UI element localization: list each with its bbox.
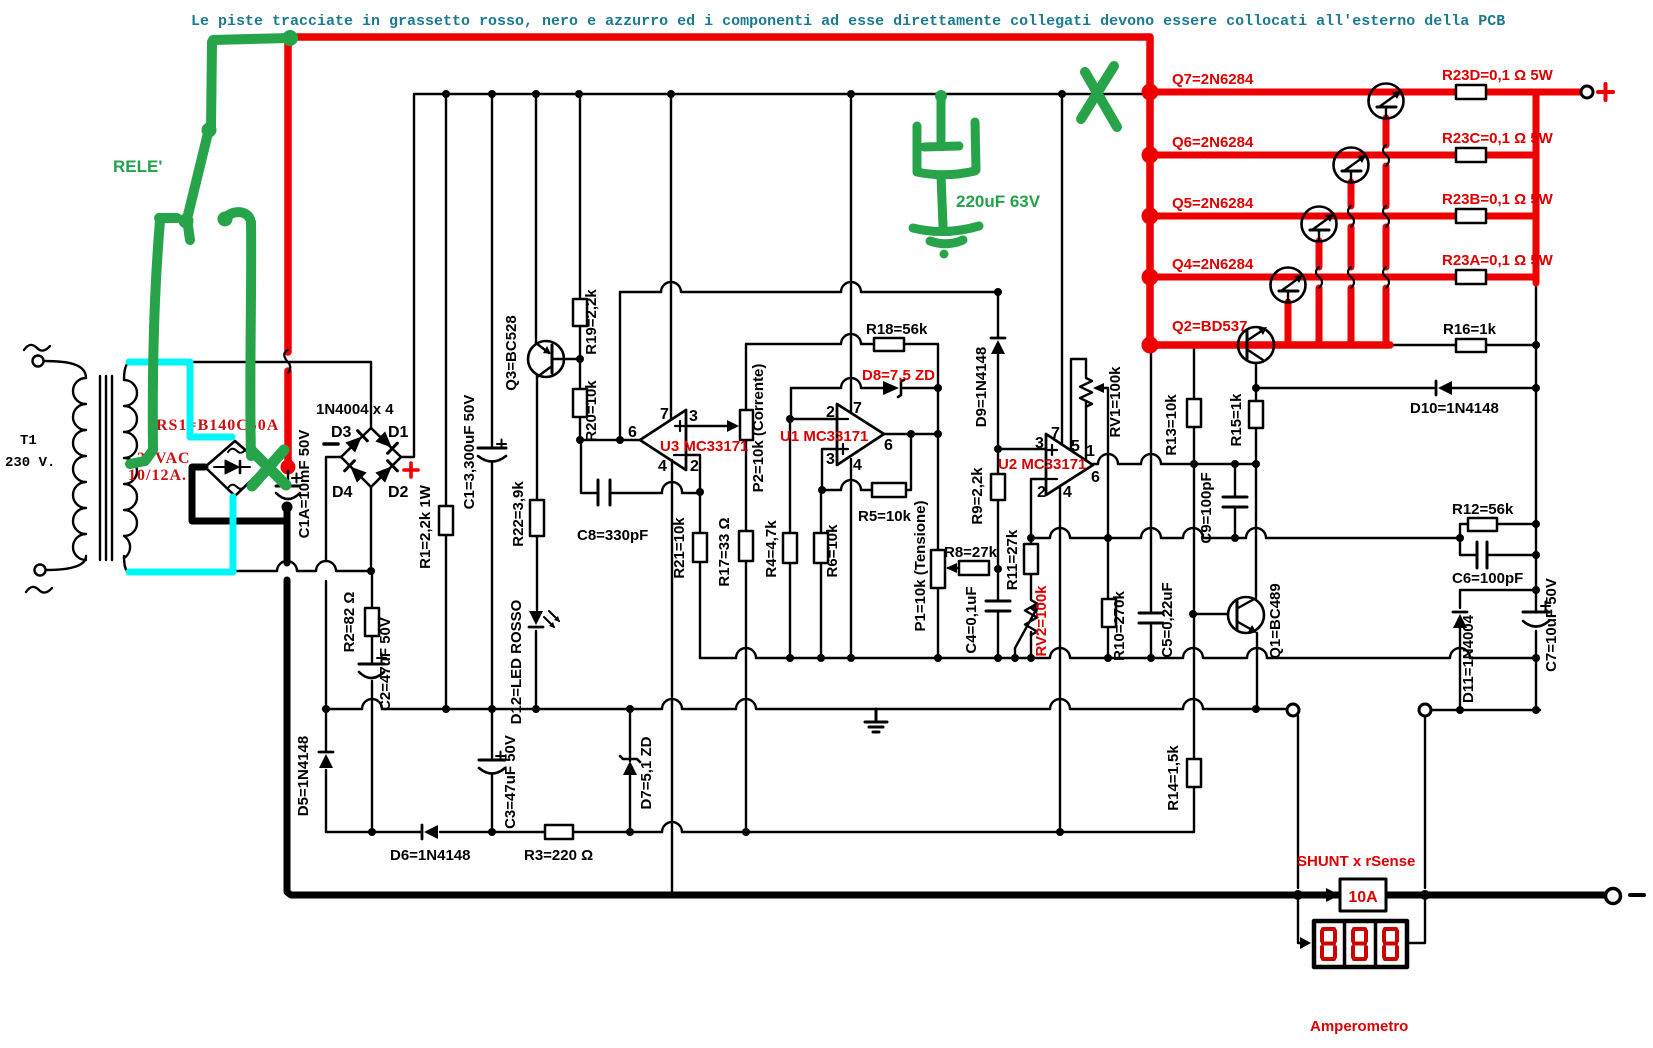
thick wire negative bus down and bottom: [287, 508, 1340, 895]
bridge RS1 ac squiggle bottom: [228, 485, 245, 489]
resistor R14: [1187, 759, 1201, 787]
svg-text:SHUNT x rSense: SHUNT x rSense: [1297, 853, 1415, 870]
svg-text:R12=56k: R12=56k: [1452, 501, 1514, 518]
bridge 1N4004 diamond: [341, 428, 401, 487]
svg-text:R23D=0,1 Ω 5W: R23D=0,1 Ω 5W: [1442, 67, 1554, 84]
transistor Q6: [1334, 148, 1369, 183]
svg-text:R1=2,2k 1W: R1=2,2k 1W: [417, 484, 434, 569]
wire R4 column x790: [789, 419, 791, 658]
svg-text:R2=82 Ω: R2=82 Ω: [341, 592, 358, 653]
svg-text:C6=100pF: C6=100pF: [1452, 570, 1523, 587]
wire D9 R9 C4 column x998: [997, 292, 999, 658]
svg-text:RELE': RELE': [113, 157, 162, 176]
green relay blobs: [179, 30, 299, 229]
wire U2 output rail y464: [1093, 463, 1256, 465]
wire RV1 bottom lead: [1085, 401, 1087, 460]
svg-text:R19=2,2k: R19=2,2k: [583, 289, 600, 355]
green relay trace top: [130, 38, 290, 464]
svg-text:220uF 63V: 220uF 63V: [956, 192, 1041, 211]
wire R21 column x700: [699, 492, 701, 658]
wire Q1 base line y614: [1193, 613, 1228, 615]
svg-text:R14=1,5k: R14=1,5k: [1165, 745, 1182, 811]
wire U2 pin2 R11 RV2 column x1031: [1031, 479, 1046, 658]
svg-text:R5=10k: R5=10k: [858, 508, 912, 525]
red collector drop Q6: [1348, 182, 1355, 345]
hop mark on red trace: [284, 350, 290, 373]
svg-text:2: 2: [1037, 484, 1046, 501]
ammeter display frame: [1314, 921, 1407, 967]
svg-text:R11=27k: R11=27k: [1004, 529, 1021, 590]
resistor R23C: [1456, 148, 1486, 162]
potentiometer RV1: [1080, 359, 1092, 407]
wire U1 pin4 column: [850, 459, 852, 658]
ammeter wire left with arrow: [1298, 900, 1302, 943]
wire R19 R20 column x580: [579, 94, 581, 440]
wire U2 pin5 RV1 bracket: [1071, 359, 1086, 450]
wire rail y292: [620, 291, 998, 293]
op-amp U1: [837, 404, 884, 465]
svg-text:C1A=10mF 50V: C1A=10mF 50V: [296, 430, 313, 539]
wire R1 column x446: [445, 94, 447, 709]
svg-text:Q4=2N6284: Q4=2N6284: [1172, 256, 1254, 273]
wire U2 pin7 column x1062: [1061, 94, 1063, 444]
svg-text:R23B=0,1 Ω 5W: R23B=0,1 Ω 5W: [1442, 191, 1554, 208]
potentiometer P1: [931, 550, 945, 588]
red collector drop Q7: [1383, 118, 1390, 345]
svg-text:D11=1N4004: D11=1N4004: [1460, 614, 1477, 703]
svg-text:R8=27k: R8=27k: [944, 544, 998, 561]
wire terminal drop right: [1424, 716, 1426, 888]
svg-text:D3: D3: [331, 424, 352, 441]
svg-text:D1: D1: [388, 424, 409, 441]
svg-text:1N4004 x 4: 1N4004 x 4: [316, 401, 394, 418]
wire P2 R17 column x746: [745, 344, 747, 832]
wire D11 top line y590: [1460, 590, 1536, 608]
svg-text:C4=0,1uF: C4=0,1uF: [963, 586, 980, 653]
svg-text:D7=5,1 ZD: D7=5,1 ZD: [638, 736, 655, 809]
bridge RS1 ac squiggle top: [228, 449, 245, 453]
wire rail y710 right segment: [1431, 709, 1540, 711]
wire D10 line y388: [1256, 387, 1536, 389]
resistor R10: [1102, 599, 1116, 627]
svg-text:R3=220 Ω: R3=220 Ω: [524, 847, 593, 864]
red trace top horizontal: [290, 37, 1150, 40]
wire U2 pin4 column x1060: [1059, 486, 1061, 832]
resistor R20: [573, 389, 587, 417]
transformer secondary lead bottom: [124, 556, 128, 572]
capacitor C1A: [287, 471, 289, 485]
resistor R17: [739, 531, 753, 561]
transformer T1 secondary winding: [124, 380, 137, 558]
diode D5: [319, 754, 333, 768]
svg-text:7: 7: [1051, 425, 1060, 442]
transistor Q3: [528, 341, 564, 377]
svg-text:10A: 10A: [1348, 889, 1378, 906]
resistor R9: [991, 474, 1005, 500]
wire U3 output line y440: [581, 439, 640, 441]
resistor R23A: [1456, 270, 1486, 284]
svg-text:D9=1N4148: D9=1N4148: [973, 347, 990, 427]
wire D8 line y388: [791, 387, 938, 389]
svg-text:R23C=0,1 Ω 5W: R23C=0,1 Ω 5W: [1442, 130, 1554, 147]
resistor R2: [365, 608, 379, 636]
P1 wiper arrow from R8: [948, 567, 959, 569]
diode D4: [345, 461, 367, 483]
red trace to bridge plus: [284, 40, 292, 462]
svg-text:R6=10k: R6=10k: [824, 524, 841, 578]
wire R18 line y346: [746, 343, 938, 345]
svg-text:R22=3,9k: R22=3,9k: [510, 481, 527, 547]
red row Q4: [1150, 274, 1533, 281]
wire bridge left vertex down: [326, 457, 341, 832]
capacitor C7: [1523, 611, 1549, 614]
svg-text:Q6=2N6284: Q6=2N6284: [1172, 134, 1254, 151]
red bus junction blobs: [1142, 84, 1159, 354]
capacitor C6: [1477, 542, 1487, 568]
red bus corner to Q2: [1150, 341, 1390, 345]
svg-text:T1: T1: [20, 433, 37, 449]
transistor Q7: [1369, 84, 1404, 119]
svg-text:Amperometro: Amperometro: [1310, 1018, 1408, 1035]
P2 wiper arrow: [727, 420, 739, 432]
svg-text:7: 7: [660, 406, 669, 423]
svg-text:R17=33 Ω: R17=33 Ω: [716, 517, 733, 586]
resistor R1: [439, 506, 453, 535]
svg-text:4: 4: [1063, 484, 1072, 501]
svg-text:R18=56k: R18=56k: [866, 321, 928, 338]
svg-text:P2=10k (Corrente): P2=10k (Corrente): [750, 364, 767, 493]
transformer T1 primary winding: [73, 378, 86, 560]
svg-text:Q2=BD537: Q2=BD537: [1172, 318, 1247, 335]
wire R12 line y524: [1460, 524, 1536, 555]
wire U1 pin2 line y419: [790, 388, 837, 419]
transformer primary terminal bottom: [26, 556, 86, 593]
resistor R4: [783, 533, 797, 563]
zener D8: [883, 381, 899, 395]
wire R6 column x821: [820, 490, 822, 658]
bridge RS1 diamond: [205, 441, 265, 496]
potentiometer P2: [740, 410, 753, 440]
resistor R15: [1249, 401, 1263, 428]
wire D11 lower segment: [1459, 628, 1461, 710]
red junction dot at bridge plus: [281, 460, 296, 475]
wire RV1 wiper column x1108: [1107, 388, 1109, 658]
ammeter digits 888: [1322, 929, 1397, 959]
svg-text:3: 3: [826, 451, 835, 468]
svg-text:RV2=100k: RV2=100k: [1033, 585, 1050, 657]
resistor R19: [573, 299, 587, 326]
svg-text:4: 4: [853, 457, 862, 474]
resistor R3: [545, 825, 573, 839]
resistor R5: [872, 483, 906, 497]
cyan wire RS1 bottom to secondary bottom: [129, 497, 233, 572]
resistor R8: [959, 561, 989, 575]
wire rail y709: [323, 708, 1287, 710]
cyan wire secondary top to RS1: [129, 362, 232, 437]
shunt 10A box: [1340, 879, 1386, 911]
red row Q7: [1150, 89, 1580, 96]
wire R16 line y345: [1390, 344, 1536, 346]
hop marks rail571: [277, 561, 336, 571]
wire R5 feedback line y490: [822, 434, 911, 490]
resistor R13: [1187, 399, 1201, 427]
diode D3: [345, 431, 367, 453]
svg-text:D2: D2: [388, 484, 409, 501]
svg-text:R15=1k: R15=1k: [1228, 393, 1245, 447]
diode D1: [375, 431, 397, 453]
svg-text:1: 1: [1086, 443, 1095, 460]
red collector drop Q4: [1285, 302, 1292, 345]
capacitor C8: [598, 480, 610, 505]
wire U1 pin7 column: [850, 94, 852, 413]
thick wire bridge minus to C1A minus: [192, 467, 287, 521]
bridge RS1 inner diode: [225, 460, 239, 474]
red row Q6: [1150, 152, 1533, 159]
wire right bus x1536 black part: [1535, 283, 1537, 710]
green X at bridge: [252, 450, 286, 486]
svg-text:R10=270k: R10=270k: [1111, 591, 1128, 661]
diode D10: [1438, 381, 1452, 395]
svg-text:U1 MC33171: U1 MC33171: [780, 428, 868, 445]
svg-text:5: 5: [1071, 438, 1080, 455]
red right bus x1536: [1533, 92, 1540, 283]
wire secondary bottom rail y571: [237, 570, 373, 572]
svg-text:R16=1k: R16=1k: [1443, 321, 1497, 338]
svg-text:Q5=2N6284: Q5=2N6284: [1172, 195, 1254, 212]
wire rail y538: [1031, 537, 1460, 539]
transistor Q1: [1228, 583, 1284, 658]
svg-text:7: 7: [853, 400, 862, 417]
wire U1 pin3 stub: [822, 449, 837, 490]
svg-text:R21=10k: R21=10k: [671, 517, 688, 579]
svg-text:D8=7,5 ZD: D8=7,5 ZD: [862, 367, 935, 384]
wire terminal drop left: [1297, 716, 1299, 888]
green X at top right: [1081, 66, 1117, 127]
op-amp U3: [640, 410, 686, 470]
svg-text:C9=100pF: C9=100pF: [1198, 472, 1215, 543]
wire C5 column x1151: [1150, 349, 1152, 658]
resistor R6: [814, 533, 828, 563]
svg-text:6: 6: [628, 424, 637, 441]
svg-text:4: 4: [658, 458, 667, 475]
svg-text:6: 6: [884, 437, 893, 454]
svg-text:D12=LED ROSSO: D12=LED ROSSO: [508, 599, 525, 724]
red row Q5: [1150, 213, 1533, 220]
resistor R18: [874, 338, 904, 351]
capacitor C4: [986, 601, 1010, 611]
transistor Q4: [1271, 268, 1306, 303]
op-amp U2: [1046, 434, 1093, 495]
svg-text:Q3=BC528: Q3=BC528: [503, 315, 520, 390]
svg-text:D10=1N4148: D10=1N4148: [1410, 400, 1499, 417]
transformer T1 core: [100, 376, 112, 560]
capacitor C3: [479, 759, 505, 762]
wire C8 feedback line y492: [581, 440, 700, 493]
wire bridge right vertex up to top bus: [401, 94, 414, 457]
svg-text:R13=10k: R13=10k: [1163, 394, 1180, 456]
svg-text:3: 3: [689, 408, 698, 425]
diode D9: [991, 340, 1005, 354]
diode D2: [375, 461, 397, 483]
label D5: [295, 736, 312, 816]
svg-text:2: 2: [826, 404, 835, 421]
svg-text:2: 2: [690, 458, 699, 475]
wire U3 pin4 column: [671, 460, 673, 892]
wire Q1 emitter: [1256, 633, 1258, 709]
diode D11: [1453, 614, 1467, 628]
svg-text:D5=1N4148: D5=1N4148: [295, 736, 312, 816]
wire bridge bottom vertex down: [371, 487, 372, 832]
shunt junction dots: [1293, 890, 1303, 900]
wire ground rail y658: [700, 657, 1536, 659]
resistor R22: [530, 500, 544, 536]
transistor Q2: [1238, 327, 1274, 363]
svg-text:D4: D4: [332, 484, 353, 501]
wire Q2 collector column x1256: [1255, 363, 1257, 597]
wire top supply bus y94: [414, 93, 1146, 95]
terminal circle left: [1287, 704, 1299, 716]
svg-text:C5=0,22uF: C5=0,22uF: [1159, 582, 1176, 657]
svg-text:6: 6: [1091, 469, 1100, 486]
capacitor C2: [359, 663, 384, 666]
black hop squiggles on red drops: [1316, 145, 1389, 288]
svg-text:RS1=B140C50A: RS1=B140C50A: [156, 417, 279, 434]
LED D12: [529, 611, 543, 625]
thick wire negative bus after shunt: [1386, 892, 1605, 899]
svg-text:RV1=100k: RV1=100k: [1107, 366, 1124, 438]
resistor R16: [1456, 339, 1486, 352]
transformer primary terminal top: [24, 345, 86, 378]
svg-text:C2=47uF 50V: C2=47uF 50V: [377, 617, 394, 711]
red plus mark at bridge: [404, 463, 418, 477]
wire R13 R14 column x1194: [1193, 348, 1195, 759]
potentiometer RV2: [1025, 600, 1037, 635]
svg-text:Le piste tracciate in grassett: Le piste tracciate in grassetto rosso, n…: [191, 13, 1505, 30]
svg-text:Q1=BC489: Q1=BC489: [1267, 583, 1284, 658]
capacitor C1: [478, 447, 506, 450]
capacitor C5: [1139, 613, 1163, 623]
svg-text:R20=10k: R20=10k: [583, 380, 600, 442]
svg-text:C1=3,300uF 50V: C1=3,300uF 50V: [461, 395, 478, 510]
wire Q3 LED column x536: [536, 94, 537, 709]
svg-text:D6=1N4148: D6=1N4148: [390, 847, 470, 864]
svg-text:230 V.: 230 V.: [5, 455, 55, 471]
transformer secondary lead top: [124, 362, 129, 380]
ground symbol: [865, 709, 887, 732]
resistor R12: [1468, 518, 1497, 531]
svg-text:C7=10uF 50V: C7=10uF 50V: [1543, 578, 1560, 672]
terminal circle right: [1419, 704, 1431, 716]
wire U3 pin3 to P2: [686, 425, 733, 427]
wire U1 output line y434: [884, 433, 938, 435]
ammeter wire right: [1407, 900, 1425, 943]
red collector drop Q5: [1316, 241, 1323, 345]
wire C1 column x492: [491, 94, 493, 832]
svg-text:U2 MC33171: U2 MC33171: [998, 456, 1086, 473]
svg-text:R23A=0,1 Ω 5W: R23A=0,1 Ω 5W: [1442, 252, 1554, 269]
wire secondary top to 1N4004 bridge: [128, 362, 371, 428]
svg-text:C8=330pF: C8=330pF: [577, 527, 648, 544]
svg-text:U3 MC33171: U3 MC33171: [660, 438, 748, 455]
resistor R21: [693, 533, 707, 562]
svg-text:C3=47uF 50V: C3=47uF 50V: [502, 735, 519, 829]
wire C6 line y555: [1460, 554, 1536, 556]
transistor Q5: [1302, 207, 1337, 242]
svg-text:R9=2,2k: R9=2,2k: [969, 467, 986, 525]
wire U3 pin7 column: [670, 94, 672, 419]
wire x620 column: [619, 292, 621, 440]
wire U2 input line: [998, 448, 1046, 450]
resistor R11: [1024, 544, 1038, 574]
diode D6: [424, 825, 438, 839]
red power bus vertical x1150: [1146, 37, 1154, 341]
resistor R23D: [1456, 85, 1486, 99]
svg-text:Q7=2N6284: Q7=2N6284: [1172, 71, 1254, 88]
capacitor C9: [1223, 497, 1247, 507]
svg-text:R4=4,7k: R4=4,7k: [763, 520, 780, 578]
wire C9 column x1235: [1234, 464, 1236, 538]
wire U3 pin2 stub: [687, 455, 700, 492]
green capacitor sketch 220uF: [913, 96, 979, 244]
output terminal plus: [1581, 86, 1593, 98]
output terminal minus: [1606, 889, 1621, 904]
svg-text:P1=10k (Tensione): P1=10k (Tensione): [912, 500, 929, 631]
minus mark at bridge: [324, 442, 338, 446]
wire rail y832: [326, 787, 1194, 832]
shunt arrow into 10A box: [1326, 888, 1340, 902]
svg-text:10/12A.: 10/12A.: [128, 467, 187, 484]
diode D7 zener: [623, 761, 637, 775]
wire D7 column x630: [629, 709, 631, 832]
resistor R23B: [1456, 209, 1486, 223]
wire P1 column x938: [937, 344, 939, 658]
